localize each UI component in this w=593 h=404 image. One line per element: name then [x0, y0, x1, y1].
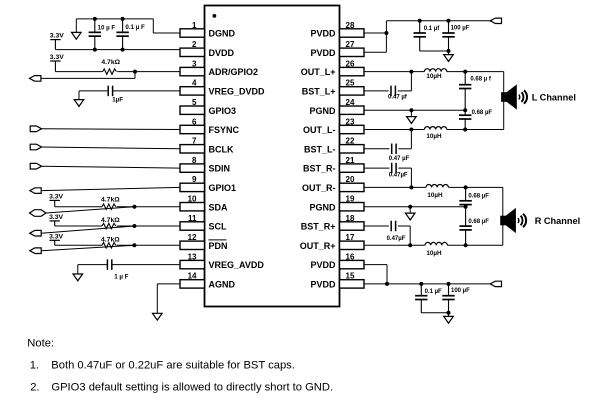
- svg-text:SDA: SDA: [209, 202, 229, 212]
- svg-text:11: 11: [188, 214, 197, 223]
- svg-text:VREG_DVDD: VREG_DVDD: [209, 87, 266, 97]
- svg-text:BST_R-: BST_R-: [303, 164, 336, 174]
- svg-text:3: 3: [192, 59, 197, 68]
- svg-text:BCLK: BCLK: [209, 144, 234, 154]
- svg-text:0.1 µF: 0.1 µF: [425, 289, 442, 295]
- svg-text:GPIO1: GPIO1: [209, 183, 237, 193]
- svg-text:OUT_R-: OUT_R-: [302, 183, 336, 193]
- svg-text:4: 4: [192, 79, 197, 88]
- svg-text:3.3V: 3.3V: [50, 54, 64, 61]
- svg-text:FSYNC: FSYNC: [209, 125, 240, 135]
- svg-text:PVDD: PVDD: [310, 29, 336, 39]
- svg-text:L Channel: L Channel: [532, 93, 576, 103]
- svg-text:BST_L-: BST_L-: [304, 144, 336, 154]
- svg-text:BST_L+: BST_L+: [302, 87, 336, 97]
- svg-text:8: 8: [192, 156, 197, 165]
- svg-text:12: 12: [188, 233, 197, 242]
- svg-text:3.3V: 3.3V: [49, 214, 63, 221]
- svg-text:AGND: AGND: [209, 280, 236, 290]
- svg-text:13: 13: [188, 252, 197, 261]
- svg-text:15: 15: [346, 272, 355, 281]
- svg-text:0.68 µ f: 0.68 µ f: [470, 76, 491, 82]
- svg-text:OUT_R+: OUT_R+: [300, 241, 336, 251]
- svg-text:3.3V: 3.3V: [50, 33, 64, 40]
- svg-text:14: 14: [188, 272, 197, 281]
- svg-text:OUT_L-: OUT_L-: [303, 125, 336, 135]
- svg-text:0.1 µ F: 0.1 µ F: [125, 24, 145, 31]
- svg-text:0.1 µf: 0.1 µf: [424, 26, 440, 32]
- svg-text:21: 21: [346, 156, 355, 165]
- svg-text:PGND: PGND: [309, 202, 336, 212]
- svg-text:0.68 µF: 0.68 µF: [468, 194, 489, 200]
- svg-text:5: 5: [192, 98, 197, 107]
- svg-text:DVDD: DVDD: [209, 48, 235, 58]
- svg-text:3.3V: 3.3V: [49, 233, 63, 240]
- svg-text:24: 24: [346, 98, 355, 107]
- svg-text:1.: 1.: [30, 359, 39, 371]
- svg-text:26: 26: [346, 59, 355, 68]
- svg-text:9: 9: [192, 175, 197, 184]
- svg-text:22: 22: [346, 137, 355, 146]
- svg-text:Note:: Note:: [27, 337, 54, 349]
- svg-text:10µH: 10µH: [426, 133, 442, 140]
- svg-text:ADR/GPIO2: ADR/GPIO2: [209, 67, 259, 77]
- svg-text:0.68 µF: 0.68 µF: [468, 219, 489, 225]
- svg-text:6: 6: [192, 117, 197, 126]
- svg-text:SDIN: SDIN: [209, 164, 231, 174]
- svg-text:SCL: SCL: [209, 222, 228, 232]
- svg-text:10µH: 10µH: [427, 192, 443, 199]
- svg-text:3.3V: 3.3V: [49, 193, 63, 200]
- svg-text:PGND: PGND: [309, 106, 336, 116]
- svg-text:PVDD: PVDD: [310, 260, 336, 270]
- svg-text:VREG_AVDD: VREG_AVDD: [209, 260, 265, 270]
- svg-text:2: 2: [192, 40, 197, 49]
- svg-text:BST_R+: BST_R+: [301, 222, 336, 232]
- svg-text:4.7kΩ: 4.7kΩ: [101, 196, 120, 203]
- svg-text:10µH: 10µH: [426, 73, 442, 80]
- svg-text:GPIO3: GPIO3: [209, 106, 237, 116]
- svg-text:16: 16: [346, 252, 355, 261]
- svg-text:PVDD: PVDD: [310, 48, 336, 58]
- svg-text:0.47 µF: 0.47 µF: [389, 156, 410, 162]
- svg-text:18: 18: [346, 214, 355, 223]
- svg-text:10: 10: [188, 195, 197, 204]
- svg-text:20: 20: [346, 175, 355, 184]
- svg-text:PVDD: PVDD: [310, 280, 336, 290]
- svg-text:0.47 µf: 0.47 µf: [388, 94, 408, 100]
- svg-text:4.7kΩ: 4.7kΩ: [101, 236, 120, 243]
- svg-text:4.7kΩ: 4.7kΩ: [101, 59, 120, 66]
- svg-text:2.: 2.: [30, 381, 39, 393]
- svg-text:DGND: DGND: [209, 29, 236, 39]
- svg-text:OUT_L+: OUT_L+: [301, 67, 336, 77]
- svg-text:GPIO3 default setting is allow: GPIO3 default setting is allowed to dire…: [51, 381, 333, 393]
- svg-text:10µH: 10µH: [426, 250, 442, 257]
- svg-text:PDN: PDN: [209, 241, 228, 251]
- svg-text:23: 23: [346, 117, 355, 126]
- svg-text:19: 19: [346, 195, 355, 204]
- svg-text:Both 0.47uF or 0.22uF are suit: Both 0.47uF or 0.22uF are suitable for B…: [51, 359, 295, 371]
- svg-text:28: 28: [346, 21, 355, 30]
- svg-text:10 µ F: 10 µ F: [98, 25, 116, 32]
- svg-text:0.68 µF: 0.68 µF: [472, 110, 493, 116]
- svg-text:1µF: 1µF: [112, 97, 123, 104]
- svg-text:1 µ F: 1 µ F: [114, 273, 128, 280]
- svg-text:1: 1: [192, 21, 197, 30]
- svg-text:7: 7: [192, 137, 197, 146]
- svg-text:100 µF: 100 µF: [451, 25, 470, 31]
- svg-text:0.47µF: 0.47µF: [389, 173, 408, 179]
- svg-text:0.47µF: 0.47µF: [387, 236, 406, 242]
- svg-text:4.7kΩ: 4.7kΩ: [101, 217, 120, 224]
- svg-text:100 µF: 100 µF: [451, 288, 470, 294]
- svg-text:27: 27: [346, 40, 355, 49]
- svg-text:25: 25: [346, 79, 355, 88]
- svg-text:R Channel: R Channel: [535, 216, 580, 226]
- svg-text:17: 17: [346, 233, 355, 242]
